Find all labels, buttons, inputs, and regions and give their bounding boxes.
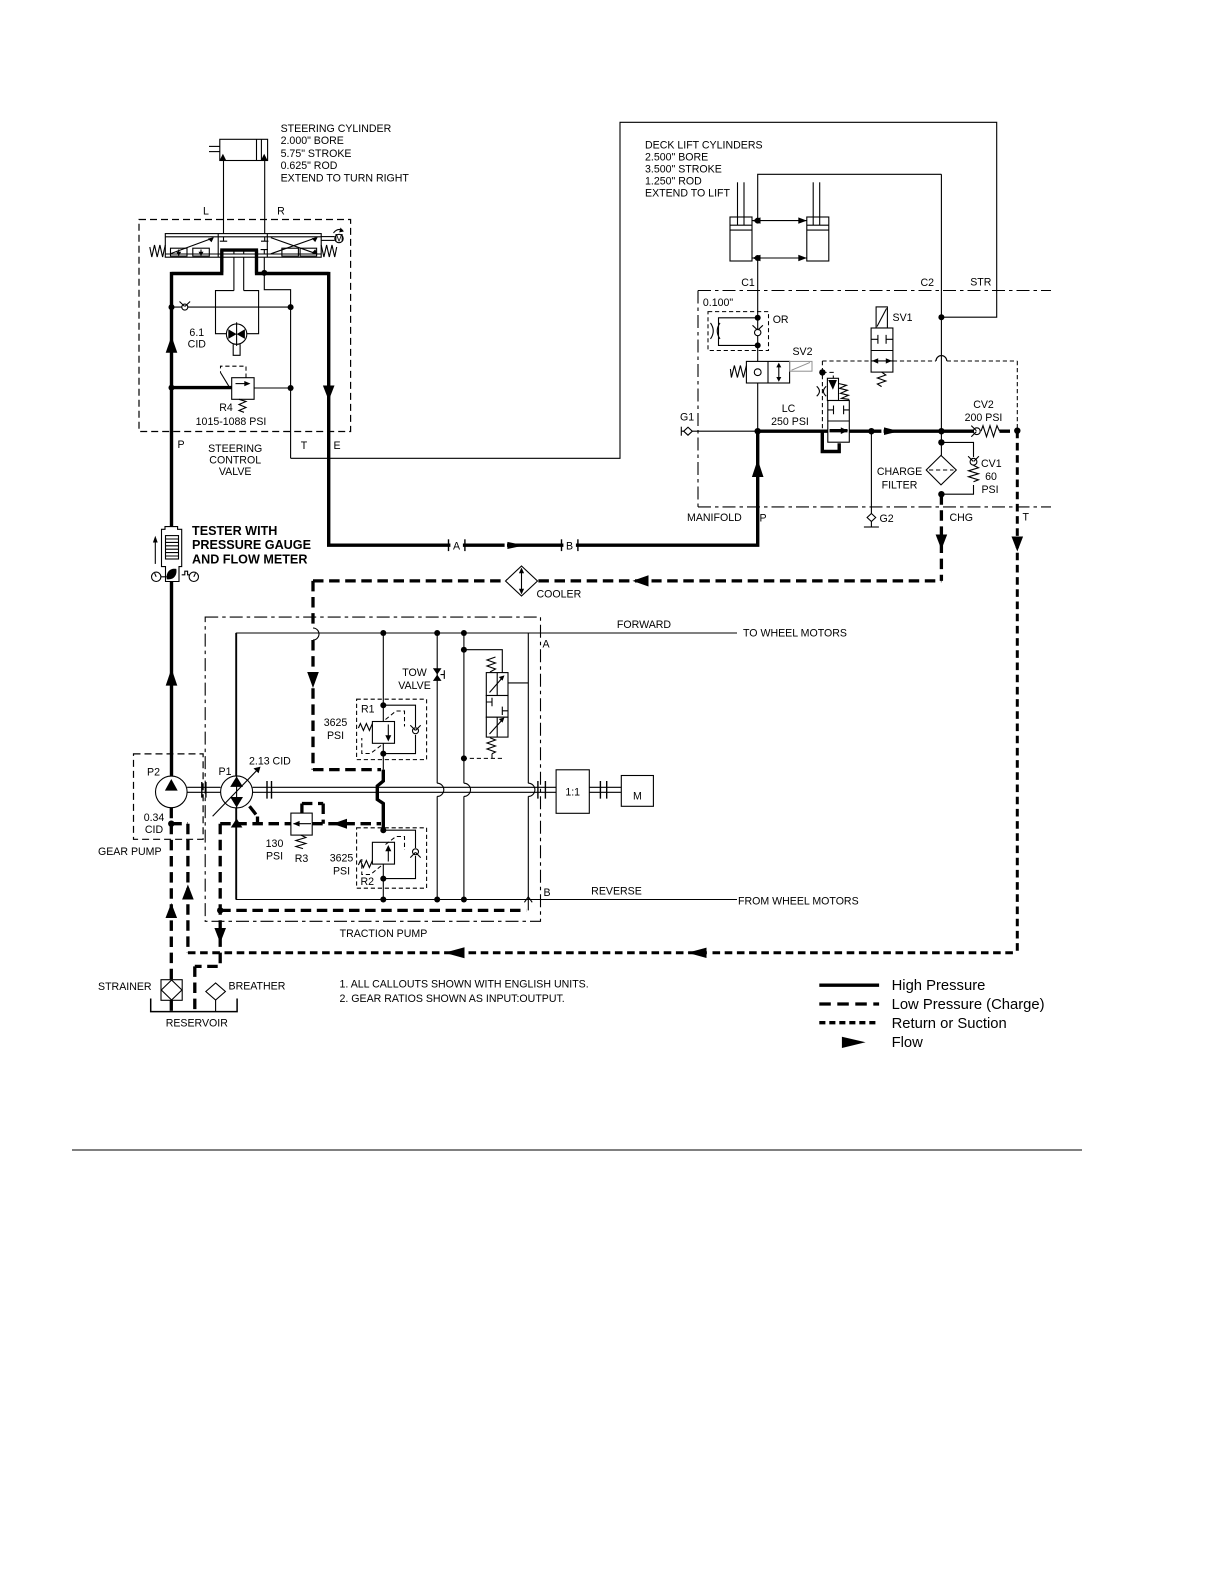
- flow arrow down on CHG: [936, 535, 948, 550]
- wire T step from valve: [264, 257, 290, 458]
- flow arrow up on riser: [182, 885, 194, 900]
- svg-text:E: E: [333, 440, 340, 452]
- flow meter striped window: [166, 536, 179, 559]
- pilot line SV1 to LC and T: [822, 356, 1017, 431]
- servo pilot line: [464, 633, 471, 900]
- svg-text:C1: C1: [741, 277, 755, 289]
- check valve CV1 bypass: [941, 442, 979, 494]
- svg-text:TRACTION PUMP: TRACTION PUMP: [340, 928, 428, 940]
- svg-text:G2: G2: [880, 513, 894, 525]
- svg-text:STEERING: STEERING: [208, 443, 262, 455]
- node main-G2 junction: [868, 428, 874, 434]
- spring right of spool: [321, 245, 337, 257]
- P1 case drain diagonal: [250, 806, 258, 824]
- reservoir: [151, 999, 237, 1012]
- svg-text:CHG: CHG: [950, 512, 974, 524]
- svg-text:Low Pressure (Charge): Low Pressure (Charge): [892, 997, 1045, 1013]
- charge line R3 to B-leg: [312, 822, 381, 825]
- svg-text:0.34: 0.34: [144, 812, 165, 824]
- node main-C2 junction: [938, 428, 944, 434]
- svg-text:3.500" STROKE: 3.500" STROKE: [645, 164, 722, 176]
- svg-text:2.500" BORE: 2.500" BORE: [645, 152, 708, 164]
- svg-text:DECK LIFT CYLINDERS: DECK LIFT CYLINDERS: [645, 140, 763, 152]
- spool right section symbols: [271, 237, 318, 256]
- svg-text:Flow: Flow: [892, 1035, 924, 1051]
- svg-text:0.625" ROD: 0.625" ROD: [281, 160, 338, 172]
- svg-text:FILTER: FILTER: [882, 479, 918, 491]
- node B-R2 junction: [380, 897, 386, 903]
- footer rule: [72, 1149, 1082, 1151]
- node T junction: [1014, 428, 1020, 434]
- return riser T: [1016, 431, 1019, 953]
- svg-text:R2: R2: [361, 876, 375, 888]
- flow arrow up on suction: [166, 903, 178, 918]
- legend low pressure sample: [819, 1002, 879, 1005]
- svg-text:OR: OR: [773, 314, 789, 326]
- svg-text:High Pressure: High Pressure: [892, 978, 986, 994]
- node T-check junction: [288, 304, 294, 310]
- flow arrow up on P: [166, 336, 178, 353]
- svg-text:M: M: [335, 232, 344, 244]
- gauge port G1: [681, 427, 757, 436]
- node filter bottom: [938, 491, 944, 497]
- svg-text:VALVE: VALVE: [219, 466, 252, 478]
- charge feed into B side: [313, 768, 381, 771]
- svg-text:L: L: [203, 206, 209, 218]
- svg-text:A: A: [543, 639, 551, 651]
- relief R2 assembly: [357, 828, 427, 900]
- wire CV2 to T: [1000, 430, 1018, 433]
- relief R3: [291, 804, 323, 849]
- node E-T junction: [261, 270, 267, 276]
- svg-text:1. ALL CALLOUTS SHOWN WITH ENG: 1. ALL CALLOUTS SHOWN WITH ENGLISH UNITS…: [340, 978, 589, 990]
- svg-text:EXTEND TO LIFT: EXTEND TO LIFT: [645, 188, 730, 200]
- svg-text:SV2: SV2: [792, 346, 812, 358]
- svg-text:0.100": 0.100": [703, 297, 734, 309]
- spool centre section symbols: [220, 237, 269, 257]
- tester gauge left: [152, 572, 167, 581]
- svg-text:PRESSURE GAUGE: PRESSURE GAUGE: [192, 538, 311, 552]
- svg-text:P: P: [177, 439, 184, 451]
- svg-text:Return or Suction: Return or Suction: [892, 1016, 1007, 1032]
- deck cylinder right: [807, 182, 829, 261]
- svg-text:PSI: PSI: [266, 851, 283, 863]
- svg-text:SV1: SV1: [893, 312, 913, 324]
- drive shaft: [187, 781, 621, 799]
- flow arrow left on cooler line: [633, 575, 649, 586]
- wire L line: [223, 161, 225, 234]
- svg-text:STR: STR: [970, 277, 992, 289]
- node filter top: [938, 439, 944, 445]
- svg-text:CV1: CV1: [981, 458, 1002, 470]
- flow arrow up on P lower: [166, 669, 178, 686]
- hose marker B on high pressure line: [562, 539, 578, 553]
- legend return sample: [819, 1021, 879, 1024]
- wire cap-end port line: [752, 255, 807, 261]
- svg-text:STRAINER: STRAINER: [98, 981, 152, 993]
- flow arrow up on manifold P riser: [752, 460, 764, 478]
- svg-text:R3: R3: [295, 853, 309, 865]
- pump P2 gear: [134, 754, 204, 839]
- tester up arrow: [154, 539, 156, 564]
- strainer to tank: [170, 1000, 173, 1011]
- wire rod-end port line: [752, 217, 807, 223]
- deck lift callout text: [645, 140, 763, 200]
- tester with flow meter body: [162, 527, 182, 582]
- flow arrow down on charge drop: [307, 672, 319, 688]
- flow arrow down on T riser: [1012, 537, 1024, 552]
- solenoid valve SV2: [730, 361, 812, 383]
- jump arc over A line: [313, 628, 319, 640]
- flow arrow left on R3 output: [333, 819, 348, 829]
- node OR top: [755, 315, 761, 321]
- node servo top junction: [461, 647, 467, 653]
- wire C2 rod-end feed: [758, 174, 942, 455]
- gerotor metering assembly: [216, 257, 259, 355]
- flow arrow left on return: [445, 947, 465, 958]
- flow arrow down on E: [323, 386, 335, 401]
- spool left section symbols: [171, 237, 214, 256]
- node A-tow junction: [434, 630, 440, 636]
- flow arrow on gallery: [884, 427, 900, 435]
- check valve CV2: [971, 426, 999, 437]
- svg-text:REVERSE: REVERSE: [591, 886, 642, 898]
- node B-tow junction: [434, 897, 440, 903]
- node R1 top: [380, 702, 386, 708]
- hose marker A on high pressure line: [449, 539, 465, 553]
- svg-text:TO WHEEL MOTORS: TO WHEEL MOTORS: [743, 627, 847, 639]
- svg-text:PSI: PSI: [981, 484, 998, 496]
- svg-text:CID: CID: [145, 824, 164, 836]
- node B-servo junction: [461, 897, 467, 903]
- svg-text:2.000" BORE: 2.000" BORE: [281, 135, 344, 147]
- cooler: [506, 566, 538, 596]
- svg-text:CV2: CV2: [973, 399, 994, 411]
- tank drop to reservoir: [195, 953, 220, 1012]
- servo control valve: [464, 650, 528, 759]
- svg-text:CID: CID: [188, 339, 207, 351]
- node case drain junction: [217, 907, 223, 913]
- wire P thick (valve to pump): [172, 256, 224, 777]
- svg-text:COOLER: COOLER: [537, 588, 582, 600]
- relief R1 assembly: [357, 633, 427, 770]
- charge line to cooler: [313, 579, 941, 582]
- orifice OR assembly: [708, 312, 769, 351]
- logic cartridge LC: [817, 378, 850, 453]
- svg-text:TOW: TOW: [402, 667, 427, 679]
- svg-text:250 PSI: 250 PSI: [771, 416, 809, 428]
- case drain vertical: [219, 824, 222, 953]
- svg-text:AND FLOW METER: AND FLOW METER: [192, 553, 307, 567]
- deck cylinder left: [730, 182, 752, 261]
- svg-text:M: M: [633, 791, 642, 803]
- node A-R1 junction: [380, 630, 386, 636]
- traction pump dash-dot boundary: [205, 617, 540, 921]
- svg-text:3625: 3625: [330, 852, 354, 864]
- node R1 bottom: [380, 751, 386, 757]
- label tester: [192, 524, 311, 567]
- svg-text:1:1: 1:1: [565, 787, 580, 799]
- solenoid valve SV1: [871, 307, 893, 387]
- svg-text:T: T: [301, 440, 308, 452]
- steering control valve dashed enclosure: [139, 220, 351, 432]
- svg-text:B: B: [566, 540, 573, 552]
- charge line under P1 to R3: [220, 822, 291, 825]
- svg-text:RESERVOIR: RESERVOIR: [166, 1017, 229, 1029]
- wire C1 drop to manifold: [757, 258, 759, 431]
- svg-text:PSI: PSI: [327, 730, 344, 742]
- tester gauge right: [182, 571, 199, 581]
- svg-text:CHARGE: CHARGE: [877, 466, 922, 478]
- long return line to T: [188, 951, 1018, 954]
- flow arrow down on case drain: [214, 928, 226, 943]
- svg-text:GEAR PUMP: GEAR PUMP: [98, 846, 162, 858]
- svg-text:FORWARD: FORWARD: [617, 619, 671, 631]
- svg-text:130: 130: [266, 838, 284, 850]
- flow arrow up into P1: [231, 819, 243, 828]
- svg-text:BREATHER: BREATHER: [229, 980, 286, 992]
- flow arrow on high pressure line: [507, 542, 524, 549]
- svg-text:G1: G1: [680, 412, 694, 424]
- svg-text:FROM WHEEL MOTORS: FROM WHEEL MOTORS: [738, 896, 859, 908]
- charge return riser: [171, 824, 188, 953]
- svg-text:6.1: 6.1: [189, 327, 204, 339]
- node pilot junction: [819, 369, 825, 375]
- svg-text:TESTER WITH: TESTER WITH: [192, 524, 277, 538]
- wire E thick (valve to A-B line to manifold P): [255, 256, 759, 547]
- svg-text:R1: R1: [361, 704, 375, 716]
- node main-P junction: [755, 428, 761, 434]
- gearbox 1:1: [556, 770, 589, 814]
- svg-text:STEERING CYLINDER: STEERING CYLINDER: [281, 123, 392, 135]
- charge filter: [926, 455, 956, 485]
- suction line strainer to P2: [170, 808, 173, 980]
- svg-text:PSI: PSI: [333, 865, 350, 877]
- svg-text:C2: C2: [921, 277, 935, 289]
- strainer: [161, 980, 182, 1001]
- svg-text:R4: R4: [219, 402, 233, 414]
- spring left of spool: [150, 245, 166, 257]
- flow arrow left on return mid: [688, 948, 707, 958]
- steering wheel actuator: [321, 228, 344, 245]
- svg-text:T: T: [1023, 512, 1030, 524]
- node P-check junction: [169, 304, 175, 310]
- node R4-T junction: [288, 385, 294, 391]
- pump P1 variable: [213, 767, 261, 817]
- wire P1 to B line: [236, 808, 238, 900]
- tester throttle valve: [167, 569, 177, 580]
- svg-text:A: A: [453, 540, 461, 552]
- node P-R4 junction: [169, 385, 175, 391]
- traction pump inner envelope / A and B lines: [236, 633, 737, 910]
- svg-text:VALVE: VALVE: [398, 680, 431, 692]
- svg-text:B: B: [544, 887, 551, 899]
- legend high pressure sample: [819, 984, 879, 987]
- node STR-C2 junction: [938, 314, 944, 320]
- svg-text:LC: LC: [782, 403, 796, 415]
- relief valve R4: [172, 366, 291, 412]
- svg-text:P: P: [760, 512, 767, 524]
- gauge port G2: [864, 431, 879, 527]
- svg-text:2. GEAR RATIOS SHOWN AS INPUT:: 2. GEAR RATIOS SHOWN AS INPUT:OUTPUT.: [340, 993, 565, 1005]
- svg-text:200 PSI: 200 PSI: [965, 412, 1003, 424]
- tow valve line: [433, 633, 444, 900]
- svg-text:P2: P2: [147, 766, 160, 778]
- check valve on makeup line: [172, 302, 291, 311]
- node suction junction: [168, 821, 174, 827]
- wire P1 to A line: [236, 633, 238, 776]
- node R2 bottom: [380, 876, 386, 882]
- charge line CHG down from manifold: [940, 494, 943, 581]
- node servo bottom junction: [461, 755, 467, 761]
- legend flow arrow: [842, 1037, 866, 1048]
- charge drop to traction: [311, 581, 314, 770]
- svg-text:CONTROL: CONTROL: [209, 454, 261, 466]
- motor M: [621, 776, 653, 807]
- svg-text:EXTEND TO TURN RIGHT: EXTEND TO TURN RIGHT: [281, 172, 410, 184]
- svg-text:MANIFOLD: MANIFOLD: [687, 512, 742, 524]
- svg-text:5.75" STROKE: 5.75" STROKE: [281, 148, 352, 160]
- svg-text:1015-1088 PSI: 1015-1088 PSI: [196, 416, 267, 428]
- svg-text:2.13 CID: 2.13 CID: [249, 755, 291, 767]
- spool valve body: [165, 234, 321, 258]
- charge jog to B side: [377, 770, 383, 831]
- node OR bottom: [755, 342, 761, 348]
- node A-servo junction: [461, 630, 467, 636]
- node R2 top: [380, 827, 386, 833]
- wire R line: [264, 161, 266, 234]
- main gallery thick line: [758, 430, 974, 433]
- steering cylinder callout text: [281, 123, 410, 184]
- svg-text:60: 60: [985, 471, 997, 483]
- svg-text:3625: 3625: [324, 717, 348, 729]
- case drain horizontal: [220, 909, 526, 912]
- svg-text:P1: P1: [219, 766, 232, 778]
- svg-text:R: R: [277, 206, 285, 218]
- steering cylinder: [209, 139, 268, 160]
- wire STR return from steering valve T: [291, 122, 997, 458]
- manifold dash-dot boundary: [698, 291, 1051, 507]
- svg-text:1.250" ROD: 1.250" ROD: [645, 176, 702, 188]
- breather: [206, 983, 226, 1012]
